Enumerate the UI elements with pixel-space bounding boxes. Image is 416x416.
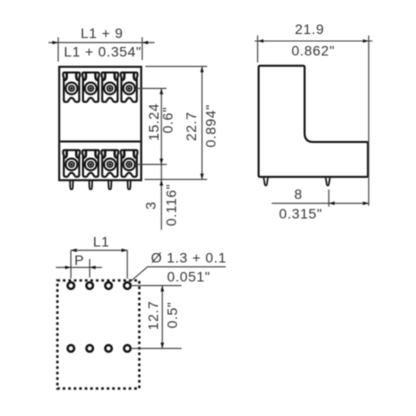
dimension 12.7 extension line bottom (hole row 2) — [132, 347, 182, 349]
solder pin 1 front view — [70, 181, 73, 189]
solder pin 2 front view — [89, 181, 92, 189]
screw contact pole 3 bottom row — [104, 159, 116, 171]
solder pin 4 front view — [128, 181, 131, 189]
svg-text:8: 8 — [294, 186, 302, 202]
dimension text 0.051" (inch) — [167, 269, 210, 285]
dimension line 8 — [272, 202, 369, 206]
contact housing pole 1 top row — [63, 73, 80, 102]
drill hole 3 row 1 — [105, 282, 112, 289]
dimension text 12.7 (mm) — [145, 301, 161, 330]
front view connector body outline — [59, 67, 141, 180]
svg-text:P: P — [74, 252, 84, 268]
dimension 21.9 / 8 extension line right (body right edge) — [368, 36, 370, 206]
drill hole 4 row 2 — [124, 345, 131, 352]
contact housing pole 4 bottom row — [121, 150, 138, 177]
dimension text L1 + 0.354" (inch) — [64, 43, 142, 59]
contact housing pole 1 bottom row — [63, 150, 80, 177]
svg-text:L1: L1 — [93, 234, 110, 250]
dimension L1 extension line left (hole 1 centre) — [70, 250, 72, 278]
drill hole 2 row 2 — [86, 345, 93, 352]
screw contact pole 4 bottom row — [123, 159, 135, 171]
extension line body top edge (for 22.7) — [145, 65, 207, 67]
dimension text 0.894" (inch) — [203, 104, 219, 147]
dimension 12.7 extension line top (hole row 1) — [132, 285, 182, 287]
svg-text:0.116": 0.116" — [163, 184, 179, 226]
drill hole 3 row 2 — [105, 345, 112, 352]
front view body mid separation line — [60, 141, 140, 143]
svg-text:L1 + 0.354": L1 + 0.354" — [64, 43, 142, 59]
svg-text:0.051": 0.051" — [167, 269, 210, 285]
svg-text:Ø 1.3 + 0.1: Ø 1.3 + 0.1 — [151, 250, 227, 266]
dimension text 0.315" (inch) — [279, 206, 322, 222]
contact housing pole 3 top row — [102, 73, 119, 102]
extension line bottom contact row centre (for 15.24) — [135, 163, 167, 165]
svg-text:3: 3 — [143, 201, 159, 209]
solder pin 2 side view — [326, 178, 330, 186]
dimension line 15.24 / 3 (vertical) — [160, 88, 164, 229]
solder pin 3 front view — [108, 181, 111, 189]
screw contact pole 4 top row — [123, 83, 135, 95]
svg-text:0.862": 0.862" — [292, 43, 335, 59]
dimension text 0.116" (inch) — [163, 184, 179, 226]
dimension line L1+9 — [49, 41, 155, 45]
dimension text diameter 1.3 + 0.1 (mm) — [151, 250, 227, 266]
contact housing pole 2 bottom row — [82, 150, 99, 177]
dimension line L1 — [71, 249, 127, 253]
dimension 8 extension line at pin 2 — [328, 190, 330, 207]
svg-text:0.315": 0.315" — [279, 206, 322, 222]
extension line body bottom edge (for 22.7 and 3) — [145, 178, 208, 180]
dimension text L1 — [93, 234, 110, 250]
dimension text 0.862" (inch) — [292, 43, 335, 59]
svg-text:0.6": 0.6" — [160, 107, 176, 134]
screw contact pole 2 top row — [85, 83, 97, 95]
screw contact pole 1 top row — [66, 83, 78, 95]
drill hole 4 row 1 — [124, 282, 131, 289]
dimension L1+9 / L1+0.354in extension line left — [57, 37, 59, 61]
dimension 21.9 extension line left — [257, 36, 259, 63]
svg-text:0.894": 0.894" — [203, 104, 219, 147]
svg-text:22.7: 22.7 — [183, 112, 199, 141]
dimension line 22.7 (vertical) — [200, 66, 204, 179]
screw contact pole 3 top row — [104, 83, 116, 95]
svg-text:L1 + 9: L1 + 9 — [81, 25, 124, 41]
PCB outline (dashed) drilling plan — [57, 280, 139, 388]
extension line top contact row centre (for 15.24) — [135, 87, 167, 89]
dimension text 21.9 (mm) — [295, 21, 324, 37]
dimension text 0.5" (inch) — [164, 302, 180, 329]
drill hole 1 row 1 — [68, 282, 75, 289]
dimension text 3 (mm) — [143, 201, 159, 209]
dimension text 15.24 (mm) — [145, 103, 161, 141]
dimension L1+9 / L1+0.354in extension line right — [141, 37, 143, 60]
contact housing pole 4 top row — [121, 73, 138, 102]
drill hole 2 row 1 — [86, 282, 93, 289]
svg-text:21.9: 21.9 — [295, 21, 324, 37]
leader line for hole diameter — [131, 267, 226, 282]
contact housing pole 3 bottom row — [102, 150, 119, 177]
svg-text:0.5": 0.5" — [164, 302, 180, 329]
dimension L1 extension line right (hole 4 centre) — [126, 250, 128, 278]
side view L-shaped housing outline — [259, 66, 368, 177]
dimension text 22.7 (mm) — [183, 112, 199, 141]
screw contact pole 2 bottom row — [85, 159, 97, 171]
contact housing pole 2 top row — [82, 73, 99, 102]
screw contact pole 1 bottom row — [66, 159, 78, 171]
dimension text 8 (mm) — [294, 186, 302, 202]
dimension text 0.6" (inch) — [160, 107, 176, 134]
dimension line 12.7 (vertical) — [161, 286, 165, 349]
dimension text P — [74, 252, 84, 268]
dimension P extension line (hole 2 centre) — [89, 259, 91, 278]
dimension text L1 + 9 (mm) — [81, 25, 124, 41]
dimension line 21.9 — [255, 39, 373, 43]
dimension line P — [56, 266, 102, 270]
solder pin 1 side view — [264, 178, 268, 186]
drill hole 1 row 2 — [68, 345, 75, 352]
svg-text:12.7: 12.7 — [145, 301, 161, 330]
